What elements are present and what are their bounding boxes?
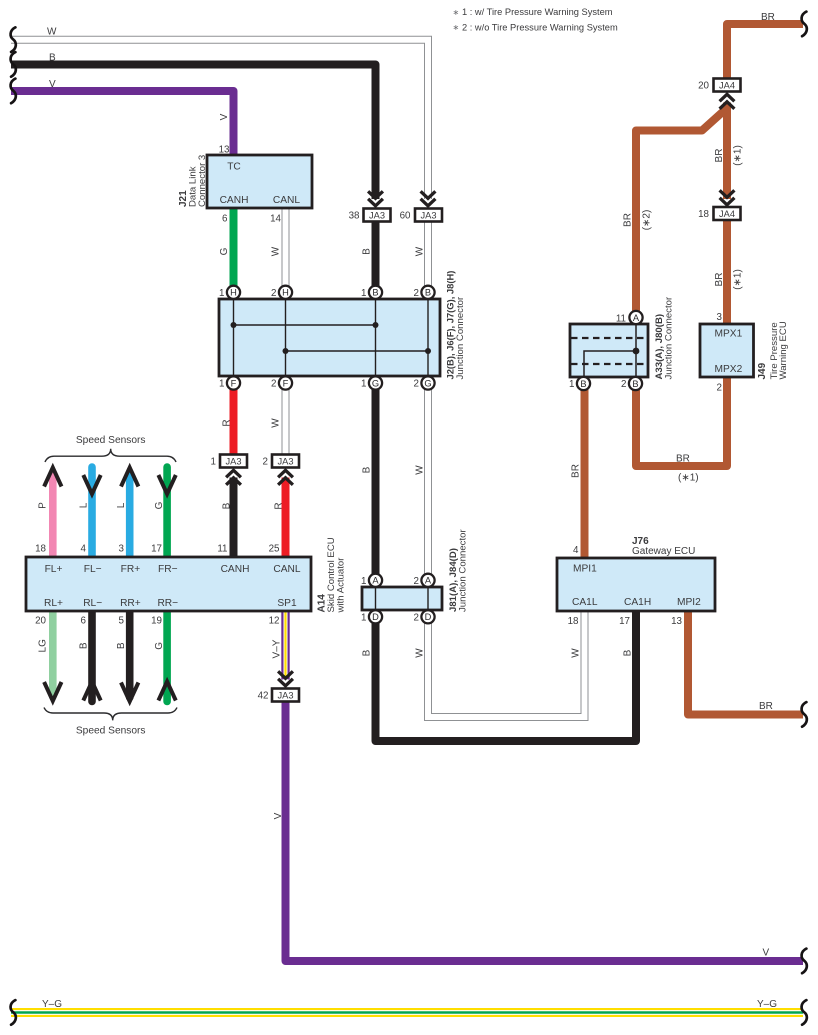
svg-text:18: 18 (698, 209, 709, 220)
svg-text:RR−: RR− (157, 598, 178, 609)
svg-text:2 : w/o Tire Pressure Warning: 2 : w/o Tire Pressure Warning System (462, 23, 618, 33)
svg-text:CANL: CANL (273, 195, 301, 206)
svg-text:Connector 3: Connector 3 (197, 155, 208, 207)
svg-text:Speed Sensors: Speed Sensors (76, 435, 146, 446)
svg-text:1: 1 (211, 457, 216, 468)
svg-text:BR: BR (571, 464, 582, 478)
svg-text:B: B (116, 642, 127, 649)
svg-text:1: 1 (361, 379, 366, 390)
svg-text:CANH: CANH (220, 195, 249, 206)
svg-text:B: B (362, 466, 373, 473)
svg-text:14: 14 (270, 214, 281, 225)
svg-text:V: V (763, 947, 770, 958)
svg-text:B: B (372, 288, 378, 298)
svg-text:W: W (271, 246, 282, 256)
svg-text:18: 18 (568, 616, 579, 627)
svg-text:MPI1: MPI1 (573, 564, 597, 575)
svg-text:MPI2: MPI2 (677, 597, 701, 608)
svg-text:BR: BR (714, 149, 725, 163)
svg-text:12: 12 (269, 616, 280, 627)
svg-text:BR: BR (759, 701, 773, 712)
svg-text:Junction Connector: Junction Connector (664, 296, 675, 379)
svg-text:G: G (219, 247, 230, 255)
svg-text:CANH: CANH (221, 564, 250, 575)
svg-text:(∗1): (∗1) (733, 269, 744, 290)
svg-text:V: V (219, 113, 230, 120)
svg-text:25: 25 (269, 544, 280, 555)
svg-text:FR−: FR− (158, 564, 178, 575)
svg-text:V: V (49, 79, 56, 90)
svg-text:1: 1 (361, 612, 366, 623)
svg-text:11: 11 (217, 544, 227, 555)
svg-text:(∗2): (∗2) (642, 210, 653, 231)
svg-text:J49: J49 (757, 362, 768, 379)
svg-text:20: 20 (35, 616, 46, 627)
svg-text:11: 11 (616, 313, 626, 324)
svg-text:13: 13 (671, 616, 682, 627)
svg-text:2: 2 (271, 379, 276, 390)
svg-text:G: G (372, 378, 379, 388)
svg-text:F: F (231, 378, 237, 388)
svg-text:B: B (49, 52, 56, 63)
svg-text:MPX1: MPX1 (715, 329, 743, 340)
svg-text:CANL: CANL (273, 564, 301, 575)
svg-text:Junction Connector: Junction Connector (455, 296, 466, 379)
svg-text:BR: BR (761, 12, 775, 23)
svg-text:A: A (633, 313, 640, 323)
svg-text:3: 3 (119, 544, 125, 555)
svg-text:JA3: JA3 (225, 456, 241, 466)
svg-text:60: 60 (400, 211, 411, 222)
svg-text:(∗1): (∗1) (678, 473, 699, 484)
svg-text:RL+: RL+ (44, 598, 63, 609)
svg-text:5: 5 (119, 616, 125, 627)
svg-text:B: B (425, 288, 431, 298)
svg-text:FL+: FL+ (45, 564, 63, 575)
svg-text:2: 2 (414, 379, 419, 390)
svg-text:P: P (38, 502, 49, 509)
svg-text:with Actuator: with Actuator (336, 557, 347, 614)
svg-text:∗: ∗ (453, 23, 460, 32)
svg-text:G: G (154, 642, 165, 650)
svg-text:W: W (271, 418, 282, 428)
svg-text:38: 38 (349, 211, 360, 222)
svg-text:13: 13 (219, 145, 230, 156)
svg-text:6: 6 (81, 616, 87, 627)
svg-text:B: B (362, 248, 373, 255)
svg-text:19: 19 (151, 616, 162, 627)
svg-text:B: B (362, 649, 373, 656)
svg-text:W: W (415, 246, 426, 256)
svg-text:BR: BR (623, 213, 634, 227)
svg-text:Gateway ECU: Gateway ECU (632, 546, 695, 557)
svg-text:4: 4 (81, 544, 87, 555)
svg-text:A: A (425, 576, 432, 586)
svg-text:Y–G: Y–G (757, 999, 777, 1010)
svg-text:L: L (116, 502, 127, 508)
svg-text:RR+: RR+ (120, 598, 141, 609)
svg-text:FL−: FL− (84, 564, 102, 575)
svg-text:G: G (424, 378, 431, 388)
svg-text:CA1L: CA1L (572, 597, 598, 608)
svg-text:JA3: JA3 (369, 210, 385, 220)
svg-text:B: B (580, 379, 586, 389)
svg-text:Warning ECU: Warning ECU (778, 321, 789, 379)
svg-text:W: W (415, 648, 426, 658)
svg-text:R: R (222, 419, 233, 426)
svg-text:(∗1): (∗1) (733, 145, 744, 166)
svg-text:R: R (274, 502, 285, 509)
svg-text:JA4: JA4 (719, 80, 735, 90)
svg-text:17: 17 (619, 616, 630, 627)
svg-text:∗: ∗ (453, 8, 460, 17)
svg-text:B: B (623, 649, 634, 656)
svg-text:V–Y: V–Y (272, 639, 283, 658)
svg-text:2: 2 (717, 382, 722, 393)
svg-text:TC: TC (227, 161, 241, 172)
svg-text:LG: LG (38, 639, 49, 653)
svg-text:A: A (372, 576, 379, 586)
svg-text:2: 2 (414, 612, 419, 623)
svg-text:G: G (154, 501, 165, 509)
svg-text:B: B (222, 502, 233, 509)
svg-text:20: 20 (698, 81, 709, 92)
svg-text:D: D (372, 612, 379, 622)
svg-text:JA4: JA4 (719, 209, 735, 219)
svg-text:42: 42 (258, 691, 269, 702)
svg-text:3: 3 (717, 312, 723, 323)
svg-text:V: V (273, 812, 284, 819)
svg-text:4: 4 (573, 545, 579, 556)
svg-text:1: 1 (569, 379, 574, 390)
svg-text:JA3: JA3 (277, 690, 293, 700)
svg-text:Junction Connector: Junction Connector (458, 529, 469, 612)
svg-text:B: B (632, 379, 638, 389)
svg-text:1: 1 (219, 288, 224, 299)
svg-text:H: H (282, 288, 289, 298)
svg-text:FR+: FR+ (121, 564, 141, 575)
svg-text:W: W (571, 648, 582, 658)
svg-text:2: 2 (414, 576, 419, 587)
svg-text:J2(B), J6(F), J7(G), J8(H): J2(B), J6(F), J7(G), J8(H) (445, 271, 456, 380)
svg-text:H: H (230, 288, 237, 298)
svg-text:RL−: RL− (83, 598, 102, 609)
svg-text:L: L (79, 502, 90, 508)
svg-text:MPX2: MPX2 (715, 364, 743, 375)
svg-text:BR: BR (676, 454, 690, 465)
svg-text:1: 1 (361, 288, 366, 299)
svg-text:B: B (79, 642, 90, 649)
svg-text:1 : w/ Tire Pressure Warning S: 1 : w/ Tire Pressure Warning System (462, 7, 613, 17)
svg-text:D: D (425, 612, 432, 622)
svg-text:1: 1 (361, 576, 366, 587)
svg-text:Y–G: Y–G (42, 999, 62, 1010)
svg-text:2: 2 (621, 379, 626, 390)
svg-text:W: W (415, 465, 426, 475)
svg-text:18: 18 (35, 544, 46, 555)
svg-text:SP1: SP1 (277, 598, 297, 609)
svg-text:W: W (47, 26, 57, 37)
svg-text:JA3: JA3 (277, 456, 293, 466)
svg-text:6: 6 (222, 214, 228, 225)
svg-text:F: F (283, 378, 289, 388)
svg-text:1: 1 (219, 379, 224, 390)
svg-text:2: 2 (271, 288, 276, 299)
svg-text:Speed Sensors: Speed Sensors (76, 725, 146, 736)
svg-text:JA3: JA3 (420, 210, 436, 220)
svg-text:BR: BR (714, 273, 725, 287)
svg-text:17: 17 (151, 544, 162, 555)
svg-text:CA1H: CA1H (624, 597, 651, 608)
svg-text:2: 2 (414, 288, 419, 299)
svg-text:2: 2 (263, 457, 268, 468)
